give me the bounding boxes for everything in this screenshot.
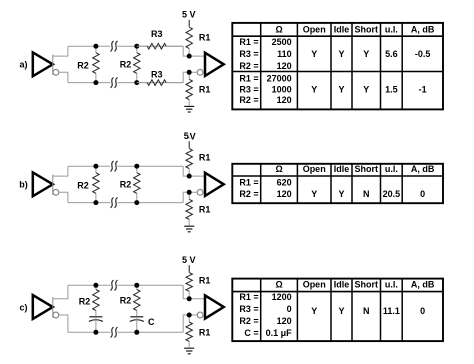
- resistor R2 (second termination): [134, 285, 140, 317]
- wire bottom segment 1: [68, 82, 110, 84]
- wire top segment 2: [118, 284, 184, 286]
- wire jog up to receiver - input: [183, 72, 197, 82]
- svg-text:0: 0: [287, 304, 292, 314]
- node receiver + input: [187, 296, 192, 301]
- svg-text:Y: Y: [363, 49, 369, 59]
- svg-text:N: N: [363, 189, 370, 199]
- wire bottom segment 1: [68, 331, 110, 333]
- node junction J2 top: [134, 283, 139, 288]
- svg-text:Y: Y: [338, 189, 344, 199]
- wire driver bottom output: [59, 192, 68, 202]
- wire driver top output: [53, 46, 68, 56]
- cable break bottom: [111, 327, 118, 337]
- cable break bottom: [111, 197, 118, 207]
- cable break top: [111, 280, 118, 290]
- wire 5V stub: [188, 141, 190, 148]
- svg-text:Y: Y: [311, 189, 317, 199]
- svg-text:Y: Y: [311, 49, 317, 59]
- svg-text:R1 =: R1 =: [239, 292, 258, 302]
- resistor R2 (second termination): [134, 46, 140, 82]
- svg-text:Ω: Ω: [275, 164, 282, 174]
- resistor R1 (pull-down): [186, 192, 192, 225]
- svg-text:R2 =: R2 =: [239, 95, 258, 105]
- svg-text:1200: 1200: [272, 292, 292, 302]
- node junction J2 top: [134, 44, 139, 49]
- svg-text:Short: Short: [355, 164, 379, 174]
- wire bottom segment 2: [118, 82, 184, 84]
- svg-text:Ω: Ω: [275, 24, 282, 34]
- resistor R1 (pull-up): [186, 27, 192, 56]
- wire driver top output: [53, 285, 68, 299]
- node junction J1 bottom: [93, 200, 98, 205]
- cable break top: [111, 161, 118, 171]
- cable break bottom: [111, 77, 118, 87]
- node junction J1 top: [93, 283, 98, 288]
- node junction J2 bottom: [134, 80, 139, 85]
- capacitor C: [130, 317, 144, 322]
- receiver comparator Ub2: [197, 173, 223, 196]
- results table a: [232, 23, 443, 110]
- svg-text:11.1: 11.1: [383, 306, 400, 316]
- svg-text:C: C: [148, 317, 155, 327]
- svg-text:R3 =: R3 =: [239, 304, 258, 314]
- svg-text:u.l.: u.l.: [385, 280, 398, 290]
- svg-text:R1: R1: [199, 85, 211, 95]
- ground: [184, 106, 194, 112]
- svg-text:R1 =: R1 =: [239, 37, 258, 47]
- ground: [184, 226, 194, 232]
- wire driver top output: [53, 166, 68, 176]
- svg-text:A, dB: A, dB: [411, 164, 435, 174]
- cable break top: [111, 41, 118, 51]
- svg-text:b): b): [19, 180, 28, 190]
- svg-text:27000: 27000: [267, 74, 292, 84]
- svg-text:Y: Y: [338, 49, 344, 59]
- svg-text:V: V: [190, 132, 196, 142]
- svg-text:N: N: [363, 306, 370, 316]
- wire bottom segment 2: [118, 202, 184, 204]
- driver buffer Ub1: [33, 172, 59, 196]
- svg-text:R2 =: R2 =: [239, 189, 258, 199]
- wire driver bottom output: [59, 72, 68, 82]
- receiver comparator Uc2: [197, 295, 223, 318]
- resistor R1 (pull-down): [186, 315, 192, 347]
- supply 5 V: [184, 131, 196, 143]
- svg-text:Short: Short: [355, 24, 379, 34]
- svg-text:a): a): [19, 60, 27, 70]
- node junction J1 bottom: [93, 330, 98, 335]
- wire jog down to receiver + input: [183, 46, 205, 56]
- svg-text:R2: R2: [77, 60, 89, 70]
- receiver comparator Ua2: [197, 53, 223, 76]
- svg-text:620: 620: [277, 178, 292, 188]
- resistor R1 (pull-down): [186, 72, 192, 105]
- resistor R2 (first termination): [93, 46, 99, 82]
- wire 5V stub: [188, 265, 190, 272]
- svg-text:0.1 μF: 0.1 μF: [266, 328, 293, 338]
- svg-text:R2: R2: [77, 180, 89, 190]
- driver buffer Uc1: [33, 295, 59, 319]
- svg-text:Y: Y: [338, 306, 344, 316]
- node junction J1 top: [93, 164, 98, 169]
- svg-text:c): c): [19, 302, 27, 312]
- svg-text:5 V: 5 V: [182, 255, 196, 265]
- driver buffer Ua1: [33, 52, 59, 76]
- svg-text:u.l.: u.l.: [385, 164, 398, 174]
- svg-text:R1: R1: [199, 327, 211, 337]
- svg-text:1.5: 1.5: [385, 84, 398, 94]
- node receiver - input: [187, 70, 192, 75]
- svg-text:u.l.: u.l.: [385, 24, 398, 34]
- svg-text:R2 =: R2 =: [239, 316, 258, 326]
- wire driver bottom output: [59, 315, 68, 332]
- svg-text:R2: R2: [120, 295, 132, 305]
- svg-text:Open: Open: [303, 164, 326, 174]
- resistor R3 (top): [137, 43, 183, 49]
- svg-text:R3 =: R3 =: [239, 84, 258, 94]
- svg-text:R1: R1: [199, 205, 211, 215]
- wire top segment 2: [118, 45, 184, 47]
- svg-text:R3 =: R3 =: [239, 49, 258, 59]
- node junction J1 top: [93, 44, 98, 49]
- wire jog up to receiver - input: [183, 192, 197, 202]
- svg-text:R1: R1: [199, 275, 211, 285]
- svg-text:R1 =: R1 =: [239, 178, 258, 188]
- svg-text:5.6: 5.6: [385, 49, 398, 59]
- wire capacitor 1 lead: [95, 317, 97, 333]
- svg-text:-1: -1: [419, 84, 427, 94]
- svg-text:0: 0: [420, 189, 425, 199]
- svg-text:R1: R1: [199, 33, 211, 43]
- svg-text:1000: 1000: [272, 84, 292, 94]
- svg-text:C =: C =: [244, 328, 258, 338]
- svg-text:R2 =: R2 =: [239, 61, 258, 71]
- svg-text:Ω: Ω: [275, 280, 282, 290]
- wire bottom segment 1: [68, 202, 110, 204]
- results table b: [232, 164, 443, 203]
- ground: [184, 348, 194, 354]
- resistor R1 (pull-up): [186, 272, 192, 299]
- wire jog down to receiver + input: [183, 285, 205, 299]
- wire jog up to receiver - input: [183, 315, 197, 332]
- svg-text:R2: R2: [120, 59, 132, 69]
- node receiver - input: [187, 190, 192, 195]
- svg-text:-0.5: -0.5: [415, 49, 431, 59]
- svg-text:Short: Short: [355, 280, 379, 290]
- node receiver - input: [187, 313, 192, 318]
- wire 5V stub: [188, 20, 190, 27]
- svg-text:Y: Y: [311, 84, 317, 94]
- svg-text:R3: R3: [151, 29, 163, 39]
- svg-text:R3: R3: [151, 69, 163, 79]
- svg-text:Y: Y: [311, 306, 317, 316]
- wire jog down to receiver + input: [183, 166, 205, 176]
- node junction J2 bottom: [134, 330, 139, 335]
- results table c: [232, 279, 443, 342]
- svg-text:5 V: 5 V: [182, 10, 196, 20]
- svg-text:R1: R1: [199, 153, 211, 163]
- svg-text:2500: 2500: [272, 37, 292, 47]
- resistor R2 (second termination): [134, 166, 140, 202]
- resistor R2 (first termination): [93, 285, 99, 317]
- svg-text:R2: R2: [79, 296, 91, 306]
- svg-text:120: 120: [277, 61, 292, 71]
- svg-text:Open: Open: [303, 24, 326, 34]
- svg-text:0: 0: [420, 306, 425, 316]
- node receiver + input: [187, 54, 192, 59]
- wire capacitor C lead: [136, 317, 138, 333]
- node junction J2 bottom: [134, 200, 139, 205]
- capacitor (first, unlabeled): [89, 317, 103, 322]
- svg-text:20.5: 20.5: [383, 189, 401, 199]
- wire top segment 2: [118, 165, 184, 167]
- node junction J2 top: [134, 164, 139, 169]
- svg-text:Idle: Idle: [334, 280, 350, 290]
- svg-text:Y: Y: [363, 84, 369, 94]
- svg-text:R2: R2: [120, 179, 132, 189]
- wire top segment 1: [68, 165, 110, 167]
- svg-text:R1 =: R1 =: [239, 74, 258, 84]
- wire bottom segment 2: [118, 331, 184, 333]
- resistor R3 (bottom): [137, 80, 183, 86]
- resistor R1 (pull-up): [186, 148, 192, 176]
- svg-text:120: 120: [277, 95, 292, 105]
- wire top segment 1: [68, 284, 110, 286]
- node receiver + input: [187, 174, 192, 179]
- wire top segment 1: [68, 45, 110, 47]
- svg-text:120: 120: [277, 316, 292, 326]
- resistor R2 (first termination): [93, 166, 99, 202]
- svg-text:A, dB: A, dB: [411, 24, 435, 34]
- node junction J1 bottom: [93, 80, 98, 85]
- svg-text:Y: Y: [338, 84, 344, 94]
- svg-text:Idle: Idle: [334, 24, 350, 34]
- svg-text:A, dB: A, dB: [411, 280, 435, 290]
- svg-text:110: 110: [277, 49, 292, 59]
- svg-text:120: 120: [277, 189, 292, 199]
- svg-text:Open: Open: [303, 280, 326, 290]
- svg-text:Idle: Idle: [334, 164, 350, 174]
